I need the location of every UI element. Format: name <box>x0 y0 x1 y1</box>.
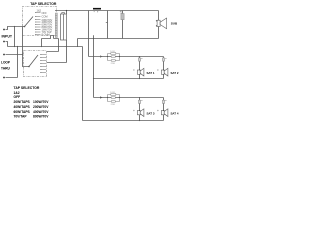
svg-text:103J: 103J <box>110 51 115 53</box>
feed wire SAT 3/4 <box>94 97 164 99</box>
wire return to bottom bus <box>82 47 84 121</box>
node 93.5/78.5 <box>93 78 94 79</box>
svg-text:SUB: SUB <box>171 21 178 25</box>
node 58.5/46.5 <box>58 46 59 47</box>
network N2 mid element <box>111 97 115 99</box>
node 14.5/46.5 <box>14 46 15 47</box>
speaker SAT4 <box>161 109 168 117</box>
label SAT 2 <box>171 71 179 75</box>
svg-text:8 OHM: 8 OHM <box>42 33 50 37</box>
svg-text:20W/TAPS: 20W/TAPS <box>14 100 31 104</box>
return wire y38.5 <box>42 36 159 39</box>
node n1 left <box>107 56 108 57</box>
contact value labels <box>37 8 53 36</box>
node 41.5/46.5 <box>41 46 42 47</box>
node 93.5/38.5 <box>93 38 94 39</box>
tick on x107 <box>106 22 108 24</box>
wire x14.5 to return <box>14 27 16 47</box>
capacitor sat3 <box>139 98 141 111</box>
switch S2 lever <box>29 55 38 67</box>
network N2 frame <box>108 95 120 102</box>
speaker SUB <box>157 18 167 29</box>
network N1 frame <box>108 54 120 61</box>
svg-text:200W/70V: 200W/70V <box>33 105 49 109</box>
switch S1 lever <box>25 17 34 27</box>
node n2 left <box>107 97 108 98</box>
loop terminal + <box>3 54 5 56</box>
network N1 mid element <box>111 56 115 58</box>
arrow mark row2 <box>100 96 103 98</box>
svg-text:224J: 224J <box>111 104 116 106</box>
capacitor sat1 <box>139 57 141 71</box>
svg-text:70V/TAP: 70V/TAP <box>14 115 28 119</box>
label SUB <box>171 21 178 25</box>
wire branch x107 down <box>107 11 109 39</box>
svg-text:TAP SELECTOR: TAP SELECTOR <box>30 2 57 6</box>
svg-text:TAP SELECTOR: TAP SELECTOR <box>14 86 40 90</box>
label bar (bold) <box>93 8 101 10</box>
polarity mark SAT2 <box>157 69 158 70</box>
loop wire upper from deck2 <box>47 39 59 52</box>
switch S1 contact dots <box>34 12 37 35</box>
wire loop+ <box>6 54 23 56</box>
speaker SAT1 <box>137 68 144 76</box>
wire secondary top to bus <box>66 11 68 15</box>
title TAP SELECTOR <box>30 2 57 6</box>
label SAT 1 <box>147 71 155 75</box>
return bus sat12 <box>94 78 164 80</box>
node sat1 top <box>139 56 140 57</box>
arrow mark row1 <box>100 55 103 57</box>
wire input- down to return <box>6 42 8 47</box>
switch S2 contacts <box>41 55 47 73</box>
label LOOP THRU <box>1 61 11 71</box>
polarity mark SAT1 <box>133 69 134 70</box>
label SAT 3 <box>147 111 155 115</box>
svg-text:SAT 2: SAT 2 <box>171 71 179 75</box>
node 14.5/26.5 <box>14 26 15 27</box>
svg-text:800W/70V: 800W/70V <box>33 115 49 119</box>
network N1 cap element <box>111 60 115 62</box>
stub node above 93.5/38.5 <box>93 35 95 38</box>
svg-text:SAT 4: SAT 4 <box>171 111 179 115</box>
polarity mark SAT3 <box>133 110 134 111</box>
feed wire SAT 1/2 <box>89 56 164 58</box>
switch S2 contact dots <box>39 54 42 73</box>
speaker SAT3 <box>137 109 144 117</box>
svg-text:40W/TAPS: 40W/TAPS <box>14 105 31 109</box>
capacitor C1 polarity marks <box>120 12 122 14</box>
switch S2 enclosure (dash-dot box, lower) <box>24 51 47 77</box>
tap selector table <box>14 86 50 119</box>
network N1 labels <box>110 51 115 65</box>
switch S2 pivot <box>28 66 30 68</box>
polarity mark SAT4 <box>157 110 158 111</box>
switch S1 contacts <box>36 13 41 35</box>
polarity marks under bar <box>94 11 99 12</box>
node 77.5/46.5 <box>77 46 78 47</box>
common return y46.5 <box>8 46 83 48</box>
top bus wire <box>55 10 159 12</box>
transformer T1 primary winding <box>55 13 57 38</box>
node n1 right <box>119 56 120 57</box>
loop terminal - <box>3 77 5 79</box>
switch S1 pivot <box>24 26 26 28</box>
label SAT 4 <box>171 111 179 115</box>
svg-text:OFF: OFF <box>42 11 48 15</box>
network N2 labels <box>110 92 115 106</box>
svg-text:103J: 103J <box>110 92 115 94</box>
wire branch x88 down <box>88 11 90 57</box>
wire input+ to switch <box>6 27 25 30</box>
bottom return bus <box>83 120 164 122</box>
label INPUT <box>2 35 13 39</box>
svg-text:LOOP: LOOP <box>1 61 11 65</box>
node 66.5/46.5 <box>66 46 67 47</box>
wire branch x122 lower <box>122 20 124 39</box>
node sat3 top <box>139 97 140 98</box>
input terminal - <box>3 41 5 43</box>
wire SUB bottom <box>158 27 160 39</box>
wire loop- <box>6 47 18 78</box>
node 66.5/10.5 <box>66 10 67 11</box>
node 22.5/54.5 <box>22 54 23 55</box>
transformer T1 secondary winding <box>61 14 67 40</box>
svg-text:SAT 1: SAT 1 <box>147 71 155 75</box>
network N2 cap element <box>111 101 115 103</box>
wire x41 down <box>41 39 43 47</box>
node 139.5/120.5 <box>139 120 140 121</box>
capacitor sat2 <box>163 57 165 71</box>
wire SUB branch from bus <box>158 11 160 21</box>
node 17.5/46.5 <box>17 46 18 47</box>
svg-text:COM: COM <box>42 14 48 18</box>
capacitor C1 body <box>121 14 124 20</box>
svg-text:400W/70V: 400W/70V <box>33 110 49 114</box>
svg-text:60W/TAPS: 60W/TAPS <box>14 110 31 114</box>
tap selector enclosure (dash-dot box, upper) <box>23 7 57 36</box>
capacitor sat4 <box>163 98 165 111</box>
node n2 right <box>119 97 120 98</box>
svg-text:THRU: THRU <box>1 67 11 71</box>
network N2 resistor <box>111 94 116 96</box>
wire branch x122 upper <box>122 11 124 14</box>
wire x66 transformer to return <box>66 40 68 47</box>
svg-text:100W/70V: 100W/70V <box>33 100 49 104</box>
speaker SAT2 <box>161 68 168 76</box>
network N1 resistor <box>111 53 116 55</box>
node 139.5/78.5 <box>139 78 140 79</box>
svg-text:OFF: OFF <box>14 95 21 99</box>
svg-text:224J: 224J <box>111 63 116 65</box>
wire branch x93 down <box>93 39 95 98</box>
svg-text:INPUT: INPUT <box>2 35 13 39</box>
input terminal + <box>3 29 5 31</box>
svg-text:SAT 3: SAT 3 <box>147 111 155 115</box>
loop wire lower from deck2 <box>47 47 67 63</box>
wire x22.5 vertical to S2 pivot <box>23 27 29 67</box>
wire x77.5 down <box>77 39 79 47</box>
